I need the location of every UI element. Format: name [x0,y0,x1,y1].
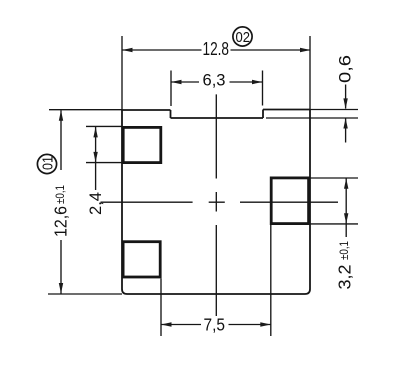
body top edge right raised segment [263,109,310,111]
extension line 6,3 left [170,71,172,107]
extension line 12,6 top-left [49,109,122,111]
dimension line 7,5 [161,324,271,326]
arrow 7,5 right [260,322,271,326]
dimension line 0,6 lower leader [345,118,347,142]
dimension line 6,3 [171,81,263,83]
arrow 2,4 top [93,127,97,137]
arrow 0,6 up (lower leader) [343,118,347,129]
arrow 7,5 left [161,322,172,326]
svg-text:±0,1: ±0,1 [55,185,67,204]
svg-text:7,5: 7,5 [204,314,226,334]
pad top-left [123,127,161,162]
body left edge [121,110,123,289]
arrow 6,3 right [252,80,263,84]
centerline vertical [215,94,217,316]
balloon circle 02 [233,27,252,46]
svg-text:6,3: 6,3 [203,71,226,90]
dimension line 2,4 [95,127,97,190]
arrow 0,6 down (upper leader) [343,98,347,109]
extension line 7,5 left [160,279,162,337]
reference line 0,6 upper [310,109,358,111]
reference line 3,2 lower [310,223,358,225]
body top edge recessed segment [171,117,264,119]
dimension line 3,2 [345,178,347,237]
arrow 12,6 top [59,110,63,121]
dimension line 0,6 upper leader [345,85,347,109]
svg-text:0,6: 0,6 [336,55,355,83]
extension line 6,3 right [262,71,264,106]
arrow 2,4 bottom [93,152,97,163]
extension line 2,4 lower [86,162,122,164]
extension line 2,4 upper [86,125,122,127]
arrow 6,3 left [171,80,182,84]
svg-text:±0,1: ±0,1 [339,241,351,260]
svg-text:02: 02 [236,29,251,46]
arrow 12.8 right [300,48,311,52]
svg-text:2,4: 2,4 [86,192,105,215]
top edge right step [262,110,264,119]
top edge left step [170,110,172,118]
dimension line 12.8 [122,49,311,51]
body right edge extension (12.8 dim) [309,36,311,110]
svg-text:12.8: 12.8 [203,39,230,59]
dimension line 12,6 [60,110,62,293]
extension line 12,6 bottom-left [48,293,122,295]
body right edge [309,110,311,290]
body top edge left raised segment [122,109,171,111]
reference line 0,6 lower [266,117,358,119]
arrow 3,2 bottom [344,213,348,224]
reference line 3,2 upper [310,177,358,179]
svg-text:01: 01 [40,156,57,170]
balloon circle 01 [37,154,56,173]
arrow 12.8 left [122,48,133,52]
body left edge extension (12.8 dim) [121,36,123,110]
arrow 3,2 top [344,178,348,189]
extension line 7,5 right [270,225,272,336]
pad right-middle [271,178,308,224]
arrow 12,6 bottom [59,283,63,294]
centerline horizontal [101,201,339,203]
body bottom edge (rounded corners) [122,289,310,294]
svg-text:12,6: 12,6 [51,206,71,237]
pad bottom-left [123,242,160,277]
svg-text:3,2: 3,2 [335,265,355,290]
